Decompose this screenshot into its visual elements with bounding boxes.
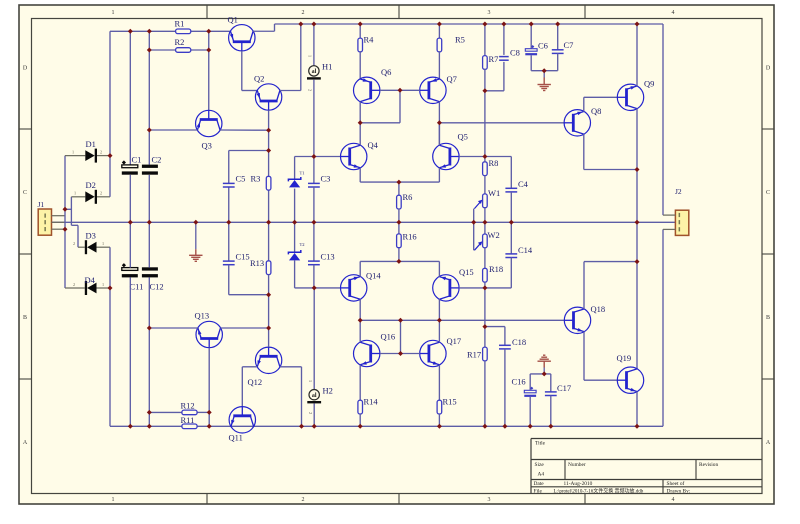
wire R17 bottom: [484, 361, 486, 426]
transistor Q16: [354, 340, 380, 366]
wire C1 vertical: [129, 31, 131, 164]
lamp H1: [309, 66, 319, 76]
resistor R6: [397, 195, 402, 209]
wire R5 bottom: [438, 51, 440, 79]
wire Q3 emitter: [149, 129, 197, 131]
wire Q18 emitter to Q19: [583, 332, 585, 381]
junction (544.2,70.7): [542, 68, 547, 73]
junction (637,24): [635, 22, 640, 27]
wire R6 bottom: [398, 209, 400, 223]
svg-text:3: 3: [488, 497, 491, 503]
svg-text:C7: C7: [564, 40, 574, 50]
wire Q15 base right: [459, 287, 485, 289]
J1 pin marks: [44, 214, 46, 218]
capacitor C16: [524, 390, 536, 393]
diode D1: [65, 155, 85, 157]
junction (313.9,156.5): [311, 154, 316, 159]
wire Q9 collector long column: [636, 109, 638, 369]
svg-text:2: 2: [308, 412, 313, 414]
wire C11 bottom: [129, 277, 131, 426]
wire C14 bottom jog: [510, 258, 512, 288]
junction (294.6,222.3): [292, 220, 297, 225]
svg-text:4: 4: [672, 10, 675, 16]
wire Q14 base: [314, 287, 340, 289]
wire emitters rail y261: [360, 260, 439, 262]
wire Q8 emitter to Q9 base: [583, 97, 585, 111]
svg-text:Title: Title: [535, 441, 546, 447]
diode D2 body: [85, 191, 94, 202]
junction (484.9,156.5): [482, 154, 487, 159]
junction (314.2,287.9): [312, 285, 317, 290]
svg-text:4: 4: [672, 497, 675, 503]
svg-text:D: D: [766, 65, 771, 71]
svg-text:R6: R6: [403, 192, 413, 202]
svg-text:D: D: [23, 65, 28, 71]
wire Q19 emitter down: [636, 392, 638, 427]
wire T1 bottom: [294, 189, 296, 223]
svg-text:Q19: Q19: [617, 353, 632, 363]
junction (484.9,222.3): [482, 220, 487, 225]
junction (208.75,50): [206, 48, 211, 53]
svg-text:L:\protel\2010-7-16文件交换 音频功放.d: L:\protel\2010-7-16文件交换 音频功放.ddb: [554, 488, 644, 495]
svg-text:D1: D1: [86, 139, 96, 149]
wire C15 bottom jog: [228, 265, 230, 295]
wire Q5 collector up: [438, 123, 440, 145]
wire R3 bottom: [268, 190, 270, 222]
wire C16 bottom: [529, 397, 531, 426]
svg-text:2: 2: [302, 10, 305, 16]
diode D2: [71, 196, 85, 198]
wire Q7c to Q5: [438, 123, 440, 145]
junction (531.2,24): [529, 22, 534, 27]
wire Q9 emitter up: [636, 24, 638, 86]
svg-text:R1: R1: [175, 19, 185, 29]
junction (313.9,222.3): [311, 220, 316, 225]
lamp H2: [309, 390, 319, 400]
svg-text:11-Aug-2010: 11-Aug-2010: [564, 481, 593, 487]
wire T2 top: [294, 222, 296, 252]
svg-text:1: 1: [102, 241, 104, 246]
wire Q17 collector up: [438, 320, 440, 342]
junction (398.9,182.1): [396, 180, 401, 185]
junction (268.6,150.5): [266, 148, 271, 153]
transistor Q13: [196, 321, 222, 347]
wire T1 jog: [295, 156, 314, 158]
wire C16/C17 top link: [530, 373, 551, 375]
diode D3 body: [87, 242, 96, 253]
capacitor C6: [525, 49, 537, 52]
wire Q13 base down: [208, 348, 210, 427]
junction (314.2,426.3): [312, 424, 317, 429]
wire T2 bottom jog: [294, 260, 296, 288]
svg-text:2: 2: [73, 241, 75, 246]
svg-text:C6: C6: [538, 41, 548, 51]
wire R18 bottom: [484, 282, 486, 288]
wire C16 top: [529, 374, 531, 390]
junction (268.6,130.2): [266, 128, 271, 133]
wire Q5 base right: [459, 156, 485, 158]
transistor Q14: [341, 275, 367, 301]
wire Q16 base right: [380, 353, 401, 355]
svg-text:Q1: Q1: [228, 15, 238, 25]
svg-text:D2: D2: [86, 180, 96, 190]
wire C3 top: [313, 157, 315, 184]
svg-text:Revision: Revision: [699, 462, 718, 468]
svg-text:R16: R16: [403, 232, 417, 242]
wire Q15 collector down: [438, 299, 440, 320]
svg-text:Q17: Q17: [447, 336, 462, 346]
svg-text:J1: J1: [38, 200, 45, 209]
svg-text:R5: R5: [455, 35, 465, 45]
wire H1 bottom: [313, 80, 315, 157]
wire Q15 emitter up: [438, 261, 440, 276]
connector J2: [675, 210, 688, 235]
wire +V top rail: [275, 23, 664, 25]
svg-text:Q6: Q6: [381, 67, 391, 77]
junction (110,155.6): [108, 153, 113, 158]
wire W2 top: [484, 222, 486, 234]
resistor R14: [358, 400, 363, 414]
wire bridge AC1 vertical: [64, 156, 66, 288]
svg-text:A4: A4: [538, 472, 545, 478]
wire R14 bottom: [359, 414, 361, 426]
svg-text:1: 1: [74, 191, 76, 196]
svg-text:al: al: [312, 393, 317, 399]
svg-text:Q18: Q18: [591, 304, 606, 314]
wire C17 bottom: [550, 396, 552, 427]
junction (557.7,24): [555, 22, 560, 27]
ground bars: [538, 360, 551, 362]
svg-text:A: A: [23, 440, 28, 446]
svg-text:2: 2: [308, 89, 313, 91]
transistor Q8: [564, 110, 590, 136]
junction (208.75,31.3): [206, 29, 211, 34]
resistor R11: [182, 424, 197, 429]
junction (484.9,90.8): [482, 88, 487, 93]
junction (130.3,222.3): [128, 220, 133, 225]
junction (313.9,24): [311, 22, 316, 27]
junction (301.5,426.3): [299, 424, 304, 429]
zener T1: [288, 177, 300, 181]
wire C6 bottom: [530, 55, 532, 70]
svg-text:A: A: [766, 440, 771, 446]
wire J2 pin1 drop: [662, 24, 664, 215]
junction (228.75,222.3): [226, 220, 231, 225]
junction (637,426.3): [635, 424, 640, 429]
wire Q3 base column: [208, 31, 210, 110]
capacitor C11: [122, 268, 138, 271]
wire C4 bottom: [510, 192, 512, 222]
wire Q16 emitter down: [359, 365, 361, 400]
svg-text:Sheet of: Sheet of: [667, 480, 685, 487]
wire ground stem: [543, 71, 545, 78]
svg-text:Q13: Q13: [195, 311, 210, 321]
wire Q6-Q7 base link: [380, 89, 420, 91]
wire Q2Q3 node down R3: [268, 130, 270, 176]
junction (484.9,287.9): [482, 285, 487, 290]
wire D3-D4 anode link: [109, 247, 111, 426]
junction (504.9,426.3): [502, 424, 507, 429]
wire C3 bottom: [313, 187, 315, 222]
svg-text:R15: R15: [443, 397, 457, 407]
wire C2 vertical: [148, 31, 150, 164]
wire Q1 base to Q2: [241, 51, 243, 91]
wire C14 top: [510, 222, 512, 254]
wire C15 top: [228, 222, 230, 261]
wire J2 pin3 drop: [662, 229, 664, 426]
wire Q7 to Q8 base rail: [439, 122, 564, 124]
svg-text:3: 3: [488, 10, 491, 16]
svg-text:Q15: Q15: [459, 267, 474, 277]
transistor Q19: [617, 367, 643, 393]
junction (439.4,320.3): [437, 318, 442, 323]
wire Q19 collector up: [636, 368, 638, 370]
resistor R7: [483, 56, 488, 70]
junction (360.2,122.8): [358, 120, 363, 125]
svg-text:C5: C5: [236, 174, 246, 184]
wire inv-ground stem: [543, 361, 545, 367]
trimmer W2 body: [483, 234, 488, 248]
svg-text:2: 2: [100, 149, 102, 154]
resistor R16: [397, 234, 402, 248]
svg-text:al: al: [312, 69, 317, 75]
J1 pin 3: [52, 228, 66, 230]
svg-text:C8: C8: [510, 48, 520, 58]
diode D3: [78, 246, 85, 248]
wire Q5 base node: [485, 156, 511, 158]
junction (637,169.5): [635, 167, 640, 172]
resistor R5: [437, 38, 442, 52]
junction (149.3,328): [147, 326, 152, 331]
transistor Q12: [255, 347, 281, 373]
svg-text:Drawn By:: Drawn By:: [667, 489, 691, 495]
wire R13 top: [268, 222, 270, 261]
transistor Q9: [617, 84, 643, 110]
junction (268.6,222.3): [266, 220, 271, 225]
wire C12 bottom: [148, 277, 150, 426]
junction (209.2,426.3): [207, 424, 212, 429]
svg-text:R14: R14: [364, 397, 379, 407]
wire Q3 collector: [220, 129, 269, 131]
resistor R12: [182, 410, 197, 415]
svg-text:1: 1: [112, 10, 115, 16]
junction (439.4,122.8): [437, 120, 442, 125]
J2 pin 1: [663, 214, 675, 216]
svg-text:C3: C3: [321, 174, 331, 184]
resistor R4: [358, 38, 363, 52]
junction (484.9,426.3): [482, 424, 487, 429]
junction (360.2,24): [358, 22, 363, 27]
capacitor C12: [142, 267, 158, 270]
wire C8 bottom jog: [503, 62, 505, 91]
junction (149.3,130): [147, 128, 152, 133]
svg-text:Q9: Q9: [644, 79, 654, 89]
wire C18 bottom: [504, 349, 506, 426]
wire Q14 emitter up: [359, 261, 361, 276]
junction (300.8,24): [298, 22, 303, 27]
svg-text:C: C: [23, 190, 27, 196]
svg-text:C11: C11: [130, 282, 144, 292]
wire R13 bottom: [268, 275, 270, 295]
wire C6 top: [530, 24, 532, 49]
wire R6 top: [398, 182, 400, 195]
wire collectors rail y320 to Q18 base: [360, 319, 564, 321]
svg-text:Q8: Q8: [591, 106, 601, 116]
wire Q2 collector up: [280, 90, 301, 92]
svg-text:R4: R4: [364, 35, 375, 45]
transistor Q11: [229, 407, 255, 433]
svg-text:C2: C2: [152, 155, 162, 165]
wire C13 bottom: [313, 265, 315, 288]
title block: [531, 438, 762, 440]
svg-text:B: B: [23, 315, 27, 321]
junction (130.3,426.3): [128, 424, 133, 429]
wire C12 top: [148, 222, 150, 267]
wire Q2 base down: [268, 110, 270, 130]
wire Q4 emitter: [359, 168, 361, 182]
junction (360.2,320.3): [358, 318, 363, 323]
transistor Q6: [354, 77, 380, 103]
capacitor C15: [223, 260, 235, 262]
wire R18/R17 link: [484, 288, 486, 347]
capacitor C2: [142, 165, 158, 168]
junction (195.8,222.3): [193, 220, 198, 225]
wire Q12 base up: [268, 328, 270, 347]
junction (268.6,328): [266, 326, 271, 331]
wire Q1 collector step: [253, 30, 274, 32]
transistor Q18: [564, 307, 590, 333]
zener T2: [288, 250, 300, 254]
junction (439.4,426.3): [437, 424, 442, 429]
wire mid-ground stem: [195, 222, 197, 249]
wire Q17 emitter down: [438, 365, 440, 400]
wire C7 top: [557, 24, 559, 50]
junction (65,229.2): [63, 227, 68, 232]
wire R13 node down: [268, 295, 270, 328]
svg-text:T1: T1: [300, 171, 306, 176]
junction (398.9,222.3): [396, 220, 401, 225]
svg-text:R11: R11: [181, 415, 195, 425]
svg-text:Q3: Q3: [202, 141, 212, 151]
junction (544.2,373.9): [542, 371, 547, 376]
svg-text:Number: Number: [568, 462, 586, 468]
junction (400.5,320.3): [398, 318, 403, 323]
wire Q4 base: [314, 156, 341, 158]
wire C11 top: [129, 222, 131, 267]
wire Q4 collector up: [359, 123, 361, 145]
wire W2 bottom: [484, 248, 486, 269]
junction (503.9,24): [501, 22, 506, 27]
junction (400.5,353.5): [398, 351, 403, 356]
svg-text:C15: C15: [236, 252, 250, 262]
capacitor C8: [499, 56, 509, 58]
junction (65,209.3): [63, 207, 68, 212]
wire Q18 collector up: [583, 262, 585, 309]
resistor R15: [437, 400, 442, 414]
wire D2 anode drop: [70, 197, 72, 226]
svg-text:C13: C13: [321, 252, 335, 262]
trimmer W1 arrow: [474, 202, 480, 209]
wire R16 bottom: [398, 248, 400, 262]
svg-text:T2: T2: [300, 242, 306, 247]
svg-text:2: 2: [100, 191, 102, 196]
wire R7 top: [484, 24, 486, 56]
wire H2 bottom: [313, 404, 315, 427]
capacitor C5: [223, 182, 235, 184]
svg-text:C16: C16: [512, 377, 526, 387]
svg-text:Q16: Q16: [381, 332, 396, 342]
transistor Q7: [420, 77, 446, 103]
wire D1-D2 cathode link: [109, 156, 111, 197]
svg-text:Q11: Q11: [229, 433, 243, 443]
junction (473.7,222.3): [471, 220, 476, 225]
resistor R2 body: [176, 48, 191, 53]
svg-text:C12: C12: [150, 282, 164, 292]
wire Q12 emitter to Q11 base: [242, 366, 257, 368]
resistor R3: [266, 176, 271, 190]
junction (149.3,31.3): [147, 29, 152, 34]
wire C5 bottom: [228, 187, 230, 222]
svg-text:R7: R7: [489, 54, 499, 64]
wire C4 top jog: [510, 157, 512, 189]
svg-text:H1: H1: [322, 62, 332, 72]
J1 pin 2: [52, 221, 66, 223]
wire +raw vertical: [109, 31, 111, 155]
wire R16 top: [398, 222, 400, 234]
zone dividers: [206, 5, 208, 19]
junction (398.9,261.4): [396, 259, 401, 264]
ground (mid rail): [189, 254, 202, 256]
junction (511.3,222.3): [509, 220, 514, 225]
resistor R18: [483, 268, 488, 282]
wire R8-W1: [484, 176, 486, 195]
wire C5 jog: [229, 150, 269, 152]
transistor Q4: [341, 143, 367, 169]
wire mid rail (output): [52, 221, 676, 223]
capacitor C1: [122, 165, 138, 168]
wire Q12 collector down: [280, 366, 302, 368]
J2 pin 3: [663, 228, 675, 230]
capacitor C3: [308, 182, 320, 184]
capacitor C7: [552, 49, 564, 51]
svg-text:W1: W1: [488, 188, 500, 198]
capacitor C17: [545, 391, 557, 393]
wire C18 jog: [485, 326, 505, 328]
junction (209.2,412.4): [207, 410, 212, 415]
wire Q17 base left: [401, 353, 420, 355]
svg-text:C18: C18: [512, 337, 526, 347]
transistor Q5: [433, 143, 459, 169]
transistor Q17: [420, 340, 446, 366]
wire H1 top: [313, 24, 315, 66]
svg-text:Q2: Q2: [254, 74, 264, 84]
svg-text:B: B: [766, 315, 770, 321]
trimmer W2 arrow: [474, 243, 480, 250]
junction (360.2,426.3): [358, 424, 363, 429]
svg-text:1: 1: [72, 149, 74, 154]
svg-text:W2: W2: [488, 230, 500, 240]
capacitor C13: [308, 260, 320, 262]
wire R15 bottom: [438, 414, 440, 426]
svg-text:C4: C4: [518, 179, 529, 189]
wire Q7 collector down: [438, 102, 440, 123]
transistor Q3: [196, 110, 222, 136]
junction (484.9,24): [482, 22, 487, 27]
J2 pin marks: [679, 213, 681, 217]
wire C8 top: [503, 24, 505, 55]
wire R1 row: [110, 30, 176, 32]
svg-text:D4: D4: [85, 275, 96, 285]
